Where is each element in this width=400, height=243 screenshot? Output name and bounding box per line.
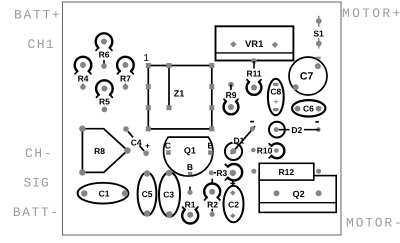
capacitor C6 [292,100,325,116]
resistor R4 [75,57,92,90]
switch S1 [313,16,324,49]
svg-text:C7: C7 [300,71,314,83]
svg-text:MOTOR+: MOTOR+ [342,6,400,21]
svg-text:VR1: VR1 [245,39,264,50]
svg-text:R5: R5 [99,97,110,107]
resistor R10 [251,143,284,158]
svg-text:R10: R10 [257,145,273,155]
trimmer R8 [79,126,130,176]
svg-text:R4: R4 [78,74,89,84]
capacitor C3 [159,170,180,218]
svg-text:Z1: Z1 [174,89,185,99]
svg-text:C3: C3 [163,190,174,200]
svg-text:R11: R11 [246,69,261,79]
transistor Q1 [164,137,214,176]
svg-text:R3: R3 [216,168,227,178]
capacitor C5 [138,170,157,216]
svg-text:R9: R9 [226,90,237,100]
resistor R3 [209,164,242,180]
resistor R6 [96,33,113,69]
svg-text:Q2: Q2 [293,189,305,199]
resistor R12 [251,163,321,180]
svg-text:S1: S1 [313,28,324,38]
IC Z1 [146,63,215,131]
svg-text:R7: R7 [120,74,131,84]
svg-text:R1: R1 [185,200,196,210]
svg-text:E: E [207,140,213,150]
resistor R5 [96,80,113,112]
svg-text:R2: R2 [207,200,218,210]
svg-text:1: 1 [143,53,149,64]
board outline [63,2,342,235]
svg-text:C8: C8 [270,87,281,97]
resistor R11 [246,58,261,95]
capacitor C7 [289,57,327,95]
capacitor C2 [224,181,244,222]
resistor R1 [182,187,198,224]
svg-text:C: C [165,140,171,150]
svg-text:BATT-: BATT- [13,205,60,220]
svg-text:C6: C6 [303,104,314,114]
transistor Q2 [259,176,336,213]
svg-text:BATT+: BATT+ [14,8,62,23]
resistor R2 [204,179,220,217]
diode D2 [269,122,321,138]
svg-text:D2: D2 [291,125,302,135]
svg-text:C4: C4 [131,137,142,147]
svg-text:C1: C1 [99,188,110,198]
resistor R7 [117,57,134,90]
svg-text:SIG: SIG [24,176,50,191]
svg-text:R12: R12 [279,167,295,177]
svg-text:MOTOR-: MOTOR- [346,216,400,231]
capacitor C4 [123,126,150,156]
svg-text:R6: R6 [99,50,110,60]
svg-text:B: B [187,162,193,172]
diode D1 [225,122,255,160]
potentiometer VR1 [216,26,294,60]
svg-text:+: + [145,141,150,150]
svg-text:CH1: CH1 [28,37,56,52]
svg-text:Q1: Q1 [184,145,196,155]
capacitor C1 [78,183,129,204]
svg-text:C5: C5 [142,189,153,199]
capacitor C8 [268,79,284,115]
svg-text:R8: R8 [94,146,105,156]
svg-text:C2: C2 [228,200,239,210]
svg-text:CH-: CH- [25,146,53,161]
svg-text:D1: D1 [233,135,244,145]
resistor R9 [224,82,239,115]
